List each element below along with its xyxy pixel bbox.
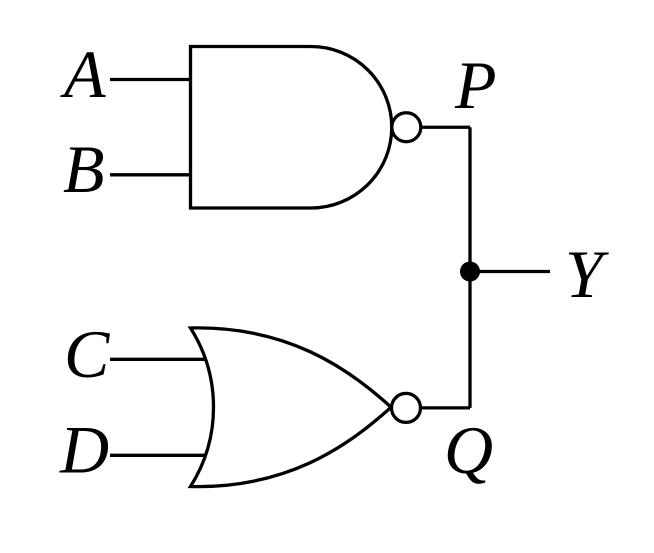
wire Y (470, 270, 550, 273)
wire Q (bubble to corner) (421, 406, 471, 409)
wire B (110, 173, 191, 176)
wire A (110, 78, 191, 81)
svg-text:B: B (63, 131, 105, 207)
NOR gate U2 body (191, 328, 392, 487)
wire C (110, 358, 206, 361)
svg-text:D: D (59, 412, 109, 488)
wire vertical P to Q (468, 127, 471, 408)
svg-text:A: A (60, 36, 106, 112)
NOR output bubble (392, 393, 421, 422)
NAND gate U1 body (191, 47, 392, 209)
wire P (bubble to corner) (421, 126, 470, 129)
svg-text:C: C (64, 316, 110, 392)
svg-text:P: P (454, 47, 497, 123)
svg-text:Q: Q (444, 412, 493, 488)
NAND output bubble (392, 113, 421, 142)
junction dot (460, 262, 480, 282)
wire D (110, 454, 206, 457)
svg-text:Y: Y (565, 236, 609, 312)
